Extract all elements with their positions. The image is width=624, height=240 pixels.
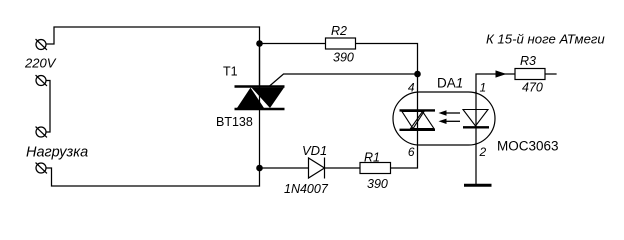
svg-text:R1: R1: [364, 151, 380, 165]
node B junction dot: [256, 165, 263, 172]
svg-text:2: 2: [479, 145, 487, 159]
opto triac symbol: [400, 110, 436, 129]
wire: node B through VD1 and R1: [260, 167, 361, 169]
svg-text:T1: T1: [223, 65, 238, 79]
svg-text:470: 470: [522, 81, 543, 95]
svg-text:1N4007: 1N4007: [284, 182, 329, 196]
terminal X2 (220V neutral): [36, 76, 47, 86]
wire: node A to R2 and down to gate node: [260, 44, 418, 75]
opto LED D1: [463, 110, 489, 128]
signal arrow to R3: [496, 70, 507, 77]
wire bottom return: X4 to node B: [47, 168, 260, 186]
svg-text:6: 6: [408, 145, 415, 159]
wire: opto pin1 up and right to R3: [476, 74, 556, 92]
svg-text:R2: R2: [331, 24, 347, 38]
svg-text:220V: 220V: [24, 56, 57, 71]
light arrow 1: [439, 110, 461, 115]
svg-text:К 15-й ноге АТмеги: К 15-й ноге АТмеги: [486, 32, 605, 47]
svg-text:390: 390: [367, 177, 388, 191]
wire: gate node down to opto pin 4 and pin 6 to R1: [391, 74, 418, 168]
ground: [464, 184, 492, 187]
diode VD1: [309, 158, 325, 179]
wire: triac vertical through symbol: [259, 44, 261, 168]
wire: triac gate diagonal to gate node: [269, 74, 418, 87]
svg-text:MOC3063: MOC3063: [497, 139, 559, 154]
svg-text:R3: R3: [520, 54, 536, 68]
resistor R1: [360, 163, 391, 174]
wire: X2 to X3: [47, 81, 51, 133]
svg-text:390: 390: [333, 51, 354, 65]
node A junction dot: [256, 40, 263, 47]
wire: opto pin2 down to ground: [475, 92, 477, 184]
resistor R2: [326, 38, 356, 49]
terminal X3 (load top): [36, 127, 47, 137]
triac T1 symbol: [235, 87, 285, 110]
svg-text:4: 4: [408, 81, 415, 95]
resistor R3: [515, 69, 545, 80]
terminal X4 (load bottom): [36, 163, 47, 173]
svg-text:VD1: VD1: [302, 143, 327, 158]
terminal X1 (220V line): [36, 40, 47, 50]
wire top: X1 to triac top: [47, 27, 260, 86]
optocoupler U1 body: [393, 92, 495, 145]
svg-text:BT138: BT138: [216, 115, 253, 129]
svg-text:DA1: DA1: [437, 76, 463, 91]
gate node junction dot: [414, 71, 421, 78]
svg-text:1: 1: [480, 81, 487, 95]
svg-text:Нагрузка: Нагрузка: [26, 145, 88, 161]
light arrow 2: [439, 119, 461, 124]
